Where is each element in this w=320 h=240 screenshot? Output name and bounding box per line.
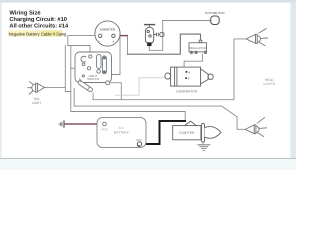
- starter: [173, 121, 221, 142]
- svg-text:Charging Circuit: #10: Charging Circuit: #10: [9, 16, 67, 23]
- light switch bottom output terminal: [106, 81, 110, 85]
- ignition switch bottom terminal: [147, 42, 151, 46]
- light switch: [75, 52, 112, 85]
- wire ammeter positive lead (dark red): [115, 35, 128, 37]
- tail light rays: [29, 81, 33, 84]
- svg-text:A: A: [188, 70, 190, 74]
- regulator bottom terminal 3: [204, 51, 206, 53]
- battery negative terminal: [137, 142, 141, 146]
- wire feed to starter post: [71, 46, 185, 122]
- negative battery cable (heavy): [142, 121, 187, 144]
- wire tail light riser: [65, 46, 71, 92]
- chassis ground at battery positive: [59, 120, 64, 128]
- wire battery positive to chassis ground (dark red): [64, 123, 102, 125]
- tail light lamp: [27, 81, 44, 94]
- wire regulator A terminal to generator armature: [184, 54, 202, 70]
- svg-text:DISTRIBUTOR: DISTRIBUTOR: [205, 11, 225, 15]
- wire headlight bus riser at switch: [73, 89, 75, 107]
- wire faint run to generator shaft: [115, 78, 165, 95]
- distributor: [211, 16, 220, 25]
- starter ground: [197, 142, 210, 150]
- wire switch bottom terminal to headlight bus: [110, 83, 122, 100]
- light switch top terminal: [89, 55, 92, 58]
- light switch label: [87, 74, 99, 81]
- svg-text:GENERATOR: GENERATOR: [176, 90, 198, 94]
- wire lever tip riser: [92, 93, 94, 100]
- svg-text:SWITCH: SWITCH: [87, 77, 99, 81]
- highlighted negative battery cable note: [8, 30, 67, 36]
- starter solenoid post: [185, 121, 197, 125]
- wire upper headlight bus to top headlight: [93, 39, 246, 100]
- svg-text:STARTER: STARTER: [179, 131, 195, 135]
- head light top lamp: [246, 28, 268, 46]
- starter mounting flange: [202, 123, 205, 142]
- generator: [165, 67, 213, 86]
- wire switch contact feed from ammeter node: [104, 36, 120, 75]
- light switch lever: [76, 78, 94, 92]
- head light bottom lamp: [245, 117, 267, 136]
- light switch contact bar 2: [102, 56, 106, 74]
- svg-text:LIGHTS: LIGHTS: [264, 82, 276, 86]
- regulator bottom terminal 2: [195, 51, 197, 53]
- wire ignition switch output loop: [149, 21, 162, 51]
- ammeter: [95, 21, 120, 46]
- tail light label: [32, 97, 41, 105]
- battery positive terminal: [103, 122, 107, 126]
- head lights label: [264, 78, 276, 86]
- regulator: [189, 40, 207, 54]
- svg-text:LIGHT: LIGHT: [32, 101, 41, 105]
- battery labels: [102, 126, 143, 142]
- svg-text:BATTERY: BATTERY: [114, 130, 130, 134]
- wire ammeter negative to light switch top terminal: [68, 36, 99, 55]
- svg-text:REGULATOR: REGULATOR: [189, 47, 206, 50]
- ammeter negative terminal: [99, 34, 102, 37]
- wire tail light stub: [45, 86, 66, 88]
- light switch terminal left: [82, 63, 85, 66]
- light switch contact bar 1: [97, 55, 101, 69]
- light switch mid terminal: [87, 67, 90, 70]
- generator armature terminal A: [186, 71, 188, 73]
- battery: [97, 118, 146, 148]
- wire ignition to distributor: [163, 20, 211, 22]
- regulator B terminal: [199, 40, 202, 43]
- svg-text:NEG: NEG: [136, 138, 143, 142]
- light switch terminal under contact: [97, 70, 101, 74]
- svg-text:POS: POS: [102, 128, 108, 132]
- regulator bottom terminal 1: [190, 51, 192, 53]
- light switch rotary arc: [81, 56, 86, 62]
- svg-text:All other Circuits: #14: All other Circuits: #14: [9, 23, 69, 30]
- svg-text:Wiring Size: Wiring Size: [9, 9, 41, 16]
- ignition key: [154, 34, 156, 36]
- starter drive nose: [205, 127, 221, 139]
- wiring size note text block: [9, 9, 69, 29]
- wire ammeter positive drop: [127, 36, 129, 55]
- ammeter positive terminal: [112, 34, 115, 37]
- wire light switch mid terminal stub: [71, 67, 88, 69]
- wire lower headlight bus to bottom headlight: [74, 106, 245, 129]
- svg-text:AMMETER: AMMETER: [100, 28, 116, 32]
- svg-text:Negative Battery Cable # 2awg: Negative Battery Cable # 2awg: [9, 31, 67, 36]
- svg-text:6 V: 6 V: [119, 126, 125, 130]
- head light top rays: [259, 28, 267, 33]
- light switch small terminal by label: [82, 75, 84, 77]
- svg-text:F: F: [188, 77, 190, 81]
- wire charging feed to regulator B terminal: [128, 34, 201, 54]
- head light bottom rays: [257, 117, 265, 123]
- generator field terminal F: [185, 77, 187, 79]
- ignition switch: [144, 25, 164, 46]
